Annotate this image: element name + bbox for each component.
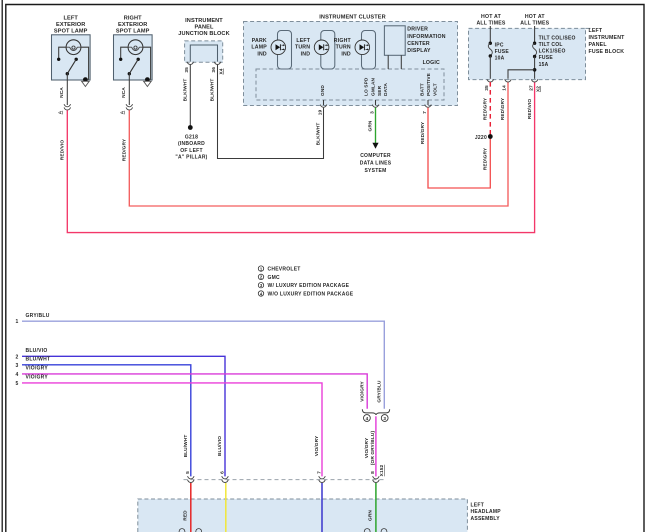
svg-text:3: 3 <box>383 416 386 421</box>
svg-text:INFORMATION: INFORMATION <box>407 34 445 40</box>
pin 36 (junction block) <box>214 62 221 65</box>
svg-text:W/O LUXURY EDITION PACKAGE: W/O LUXURY EDITION PACKAGE <box>268 292 354 298</box>
wire: GRN into headlamp <box>375 483 377 532</box>
ground: case ground arrow <box>144 81 152 86</box>
svg-text:FUSE BLOCK: FUSE BLOCK <box>589 49 625 55</box>
indicator LEFT TURN IND housing <box>321 31 335 70</box>
svg-text:GRN: GRN <box>368 510 374 521</box>
svg-text:SER: SER <box>377 85 383 96</box>
svg-text:J220: J220 <box>475 135 487 141</box>
svg-text:3: 3 <box>369 111 375 114</box>
LED right turn ind <box>355 40 370 55</box>
lamp: RIGHT EXTERIOR SPOT LAMP title <box>116 16 150 35</box>
svg-text:IND: IND <box>257 51 267 57</box>
footnote marker 3 <box>381 415 388 422</box>
svg-text:10A: 10A <box>495 56 505 62</box>
wire: page edge line <box>1 0 3 532</box>
wire: RED/GRY right lamp to fuse pin 14 <box>129 82 508 206</box>
wire: RED into headlamp <box>190 483 192 532</box>
svg-text:GRY/BLU: GRY/BLU <box>377 380 383 403</box>
terminal marker 2 (red wire) <box>196 529 202 532</box>
pin label LO SPD GMLAN SER DATA <box>363 77 389 96</box>
svg-text:GRY/BLU: GRY/BLU <box>26 313 50 319</box>
node: case ground dot <box>145 77 150 82</box>
node G218 <box>188 125 193 130</box>
svg-text:RED\GRY: RED\GRY <box>500 97 506 120</box>
terminal marker 2 (grn wire) <box>381 529 387 532</box>
svg-text:RED: RED <box>183 510 189 521</box>
ground: case ground arrow <box>82 81 90 86</box>
svg-text:RED\VIO: RED\VIO <box>527 99 533 120</box>
svg-text:6: 6 <box>219 471 225 474</box>
svg-text:BLU/WHT: BLU/WHT <box>26 357 51 363</box>
wire: RED/VIO left lamp to fuse pin 27 <box>67 82 534 233</box>
svg-text:GRN: GRN <box>368 120 374 131</box>
pin 3 (cluster) <box>369 100 378 114</box>
switch S1 <box>75 58 78 61</box>
wire 3 BLU/WHT <box>15 357 191 477</box>
node: case ground dot <box>83 77 88 82</box>
svg-text:ALL TIMES: ALL TIMES <box>520 20 549 26</box>
wire: BLK/WHT pin 35 to G218 <box>189 65 191 126</box>
svg-text:DATA LINES: DATA LINES <box>360 161 392 167</box>
wire: RED/GRY fusible link pin 35 to J220 (dashed) <box>489 82 491 135</box>
svg-text:ASSEMBLY: ASSEMBLY <box>471 516 501 522</box>
wire 5 VIO/GRY <box>15 375 322 477</box>
wire: left lamp lead NCA <box>66 74 68 105</box>
svg-text:HOT AT: HOT AT <box>481 14 502 20</box>
svg-text:EXTERIOR: EXTERIOR <box>56 22 85 28</box>
terminal marker 1 (red wire) <box>179 529 185 532</box>
svg-text:7: 7 <box>316 471 322 474</box>
svg-text:CHEVROLET: CHEVROLET <box>268 267 301 273</box>
svg-text:BLU/WHT: BLU/WHT <box>183 435 189 458</box>
svg-text:FUSE: FUSE <box>539 55 554 61</box>
wire: branch to pin 14 <box>508 70 535 79</box>
svg-text:INSTRUMENT CLUSTER: INSTRUMENT CLUSTER <box>319 15 385 21</box>
svg-text:SPOT LAMP: SPOT LAMP <box>54 29 88 35</box>
svg-text:VIO/GRY: VIO/GRY <box>359 381 365 402</box>
pin 14 (fuse block) <box>505 79 512 82</box>
switch S2 <box>137 58 140 61</box>
pin 27 (fuse block) <box>531 79 538 82</box>
svg-text:INSTRUMENT: INSTRUMENT <box>185 18 223 24</box>
fuse block: HOT AT ALL TIMES (left) <box>476 14 505 27</box>
svg-text:GMC: GMC <box>268 275 281 281</box>
svg-text:X152: X152 <box>379 464 385 476</box>
wire: right lamp lead NCA <box>128 74 130 105</box>
lamp: LEFT EXTERIOR SPOT LAMP box <box>52 35 91 87</box>
LED left turn ind <box>314 40 329 55</box>
pin 35 (fuse block) <box>487 79 494 82</box>
svg-text:INSTRUMENT: INSTRUMENT <box>589 35 626 41</box>
svg-text:TURN: TURN <box>295 45 310 51</box>
indicator RIGHT TURN IND label <box>334 38 352 57</box>
svg-text:DRIVER: DRIVER <box>407 27 428 33</box>
svg-text:VIO/GRY: VIO/GRY <box>26 366 49 372</box>
wire: GRN serial data <box>375 108 377 144</box>
svg-text:LCK1/SEO: LCK1/SEO <box>539 49 566 55</box>
svg-text:LEFT: LEFT <box>589 28 603 34</box>
bulb B2 <box>128 40 143 55</box>
headlamp: LEFT HEADLAMP ASSEMBLY box <box>138 499 468 532</box>
wire: bulb left lead <box>59 47 66 58</box>
svg-text:7: 7 <box>422 111 428 114</box>
connector X152 dashed line <box>184 479 385 481</box>
svg-text:W/ LUXURY EDITION PACKAGE: W/ LUXURY EDITION PACKAGE <box>268 283 350 289</box>
lamp: RIGHT EXTERIOR SPOT LAMP box <box>114 35 153 87</box>
legend: footnotes <box>258 266 300 273</box>
indicator LEFT TURN IND label <box>295 38 311 57</box>
fuse block: dashed box <box>469 28 586 79</box>
LED park lamp ind <box>271 40 286 55</box>
svg-text:5: 5 <box>15 381 18 387</box>
svg-text:TILT COL/SEO: TILT COL/SEO <box>539 35 576 41</box>
connector pin 5 arcs <box>188 476 195 482</box>
svg-text:PANEL: PANEL <box>589 42 608 48</box>
svg-text:BLK/WHT: BLK/WHT <box>316 123 322 146</box>
pin 19 (cluster) <box>320 100 327 107</box>
display: DRIVER INFORMATION CENTER DISPLAY <box>384 26 405 69</box>
svg-text:SYSTEM: SYSTEM <box>364 168 386 174</box>
svg-text:LEFT: LEFT <box>471 503 485 509</box>
svg-text:3: 3 <box>15 363 18 369</box>
connector A (right lamp) <box>120 104 133 114</box>
svg-text:BLU/VIO: BLU/VIO <box>26 348 48 354</box>
fuse block: label LEFT INSTRUMENT PANEL FUSE BLOCK <box>586 28 626 55</box>
svg-text:G218: G218 <box>185 135 198 141</box>
indicator RIGHT TURN IND housing <box>362 31 376 70</box>
footnote marker 4 <box>364 415 371 422</box>
fuse F1 IPC FUSE 10A <box>488 26 509 79</box>
svg-text:GMLAN: GMLAN <box>370 77 376 96</box>
svg-text:NCA: NCA <box>59 87 65 98</box>
svg-text:JUNCTION BLOCK: JUNCTION BLOCK <box>178 31 229 37</box>
svg-text:IPC: IPC <box>495 42 504 48</box>
node J220 <box>488 134 493 139</box>
svg-text:VIO/GRY: VIO/GRY <box>364 437 370 458</box>
svg-text:19: 19 <box>317 110 323 116</box>
svg-text:X2: X2 <box>535 86 541 92</box>
svg-text:SPOT LAMP: SPOT LAMP <box>116 29 150 35</box>
svg-text:5: 5 <box>185 471 191 474</box>
terminal marker 1 (grn wire) <box>364 529 370 532</box>
wire: BLU into headlamp <box>321 483 323 532</box>
svg-text:VIO/GRY: VIO/GRY <box>314 435 320 456</box>
svg-text:GND: GND <box>320 85 326 96</box>
connector pin 8 arcs <box>373 476 380 482</box>
svg-text:PANEL: PANEL <box>194 25 214 31</box>
svg-text:1: 1 <box>15 319 18 325</box>
svg-text:CENTER: CENTER <box>407 41 430 47</box>
svg-text:DATA: DATA <box>383 83 389 96</box>
wire: YEL into headlamp <box>225 483 227 532</box>
svg-text:RED/GRY: RED/GRY <box>122 138 128 161</box>
wire: merged VIO/GRY (OR GRY/BLU) <box>364 416 385 476</box>
wire 4 VIO/GRY <box>15 366 367 409</box>
wire: bulb right lead to case <box>143 47 151 80</box>
svg-text:LEFT: LEFT <box>296 38 310 44</box>
svg-text:NCA: NCA <box>121 87 127 98</box>
svg-text:VIO/GRY: VIO/GRY <box>26 375 49 381</box>
wire 1 GRY/BLU <box>15 313 384 409</box>
svg-text:IND: IND <box>301 51 311 57</box>
svg-text:"A" PILLAR): "A" PILLAR) <box>175 154 207 160</box>
svg-text:FUSE: FUSE <box>495 49 510 55</box>
fuse block: HOT AT ALL TIMES (right) <box>520 14 549 27</box>
pin 35 (junction block) <box>187 62 194 65</box>
svg-text:35: 35 <box>184 67 190 73</box>
svg-text:ALL TIMES: ALL TIMES <box>476 20 505 26</box>
svg-text:BLU/VIO: BLU/VIO <box>217 436 223 456</box>
svg-text:X4: X4 <box>218 68 224 74</box>
junction block: inner bus <box>190 45 217 62</box>
wire: BLK/WHT pin 36 to cluster GND pin 19 <box>218 65 324 159</box>
svg-text:2: 2 <box>15 354 18 360</box>
junction block: dashed outline <box>185 41 223 62</box>
logic box (dashed) <box>256 69 444 100</box>
indicator PARK LAMP IND label <box>251 38 267 57</box>
svg-text:POSITIVE: POSITIVE <box>426 72 432 96</box>
svg-text:VOLT: VOLT <box>432 83 438 96</box>
svg-text:BLK/WHT: BLK/WHT <box>210 79 216 102</box>
wire: RED/GRY batt volt pin 7 loop <box>428 108 490 188</box>
svg-text:DISPLAY: DISPLAY <box>407 48 431 54</box>
svg-text:LAMP: LAMP <box>251 45 267 51</box>
connector A (left lamp) <box>58 104 71 114</box>
svg-text:PARK: PARK <box>252 38 267 44</box>
svg-text:14: 14 <box>502 85 508 91</box>
svg-text:BATT: BATT <box>420 83 426 96</box>
svg-text:A: A <box>120 110 126 114</box>
connector pin 6 arcs <box>222 476 229 482</box>
brace: options merge <box>362 409 389 415</box>
svg-text:(INBOARD: (INBOARD <box>178 141 205 147</box>
svg-text:HEADLAMP: HEADLAMP <box>471 509 502 515</box>
svg-text:LOGIC: LOGIC <box>423 60 440 66</box>
wire 2 BLU/VIO <box>15 348 225 477</box>
svg-text:TILT COL: TILT COL <box>539 42 563 48</box>
svg-text:36: 36 <box>211 67 217 73</box>
svg-text:A: A <box>58 110 64 114</box>
svg-text:RIGHT: RIGHT <box>124 16 142 22</box>
svg-text:RED\GRY: RED\GRY <box>483 97 489 120</box>
svg-text:RED/GRY: RED/GRY <box>420 121 426 144</box>
svg-text:RIGHT: RIGHT <box>334 38 352 44</box>
svg-text:4: 4 <box>15 372 18 378</box>
node: fuse 2 branch junction <box>533 68 537 72</box>
instrument cluster: dashed box <box>244 22 458 106</box>
svg-text:4: 4 <box>366 416 369 421</box>
svg-text:COMPUTER: COMPUTER <box>360 153 391 159</box>
svg-text:(OR GRY/BLU): (OR GRY/BLU) <box>370 431 376 466</box>
svg-text:8: 8 <box>370 471 376 474</box>
junction block: INSTRUMENT PANEL JUNCTION BLOCK title <box>178 18 229 37</box>
svg-text:EXTERIOR: EXTERIOR <box>118 22 147 28</box>
svg-text:OF LEFT: OF LEFT <box>180 148 203 154</box>
svg-text:TURN: TURN <box>336 45 351 51</box>
svg-text:RED\GRY: RED\GRY <box>483 147 489 170</box>
connector pin 7 arcs <box>319 476 326 482</box>
svg-text:RED/VIO: RED/VIO <box>60 140 66 161</box>
svg-text:15A: 15A <box>539 62 549 68</box>
svg-text:35: 35 <box>484 85 490 91</box>
arrow to computer data lines <box>372 143 378 149</box>
svg-text:BLK/WHT: BLK/WHT <box>183 79 189 102</box>
svg-text:27: 27 <box>528 85 534 91</box>
wire: bulb left lead <box>121 47 128 58</box>
wire: bulb right lead to case <box>81 47 89 80</box>
bulb B1 <box>66 40 81 55</box>
pin label BATT POSITIVE VOLT <box>420 72 439 96</box>
lamp: LEFT EXTERIOR SPOT LAMP title <box>54 16 88 35</box>
svg-text:LEFT: LEFT <box>64 16 79 22</box>
svg-text:IND: IND <box>341 51 351 57</box>
svg-text:LO SPD: LO SPD <box>363 77 369 96</box>
pin 7 (cluster) <box>422 100 431 114</box>
svg-text:HOT AT: HOT AT <box>525 14 546 20</box>
fuse F2 TILT COL/SEO FUSE 15A <box>533 26 576 79</box>
indicator PARK LAMP IND housing <box>278 31 292 70</box>
